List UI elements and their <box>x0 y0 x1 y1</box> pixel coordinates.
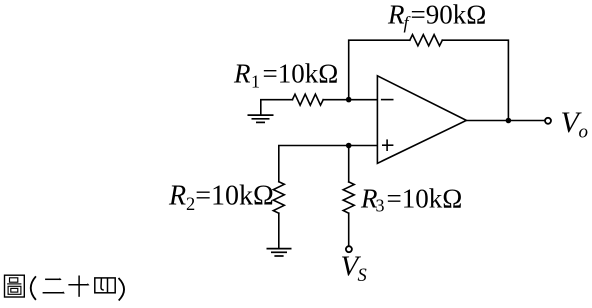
svg-text:3: 3 <box>376 196 385 216</box>
label R1=10k <box>233 59 338 92</box>
caption CJK "si" four glyph <box>95 278 115 293</box>
svg-text:R: R <box>387 0 405 29</box>
svg-text:=10kΩ: =10kΩ <box>195 181 274 212</box>
ground G2 <box>267 249 292 256</box>
svg-text:=10kΩ: =10kΩ <box>387 183 463 213</box>
terminal Vo open circle <box>545 118 551 124</box>
svg-text:S: S <box>358 266 367 286</box>
svg-text:=10kΩ: =10kΩ <box>263 59 339 89</box>
svg-text:R: R <box>233 59 251 89</box>
label Rf=90k <box>387 0 486 32</box>
svg-text:o: o <box>579 121 589 142</box>
caption CJK "er" two glyph <box>43 279 64 293</box>
op-amp plus sign <box>382 139 393 151</box>
ground G1 <box>248 115 274 122</box>
svg-text:1: 1 <box>251 72 260 92</box>
caption open paren <box>31 276 36 300</box>
ground G1 stub <box>261 100 293 115</box>
svg-text:2: 2 <box>186 195 195 215</box>
caption CJK "shi" serif <box>88 283 90 286</box>
wire output <box>466 120 544 122</box>
node B junction dot (noninverting input) <box>346 143 352 149</box>
node A junction dot (inverting input) <box>346 97 352 103</box>
wire noninverting input <box>279 146 378 182</box>
wire R3 to Vs terminal <box>348 213 350 246</box>
resistor Rf <box>410 35 443 46</box>
caption close paren <box>119 278 125 301</box>
wire feedback top <box>349 40 410 99</box>
label Vs <box>341 251 367 286</box>
label Vo <box>561 106 589 143</box>
label R3=10k <box>360 183 462 215</box>
caption CJK "shi" ten glyph <box>68 276 88 297</box>
terminal Vs open circle <box>346 246 352 252</box>
op-amp U1 <box>377 76 466 164</box>
resistor R2 <box>273 182 284 214</box>
wire feedback right <box>442 40 508 120</box>
svg-text:R: R <box>168 181 186 212</box>
resistor R1 <box>292 94 323 105</box>
wire node B down to R3 <box>348 146 350 182</box>
label R2=10k <box>168 181 274 215</box>
svg-text:=90kΩ: =90kΩ <box>411 0 487 29</box>
caption CJK "er" serifs <box>60 278 65 294</box>
resistor R3 <box>343 182 354 213</box>
wire R2 to ground <box>278 213 280 248</box>
caption CJK "tu" figure glyph <box>5 275 25 297</box>
node output junction dot <box>506 118 512 124</box>
wire R1 to op-amp <box>323 99 377 101</box>
op-amp minus sign <box>381 99 394 101</box>
